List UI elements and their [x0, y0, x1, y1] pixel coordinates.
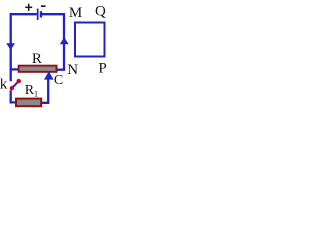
svg-text:1: 1 [34, 89, 38, 98]
resistor R1 body [15, 98, 42, 108]
wire: battery - terminal to top-right corner, down right side to resistor R right lead [42, 14, 64, 69]
svg-text:C: C [54, 73, 63, 88]
wire: R left lead to left vertical wire [10, 68, 19, 70]
battery short thick plate (-) [40, 11, 42, 17]
svg-text:R: R [32, 51, 42, 67]
svg-text:Q: Q [95, 3, 106, 19]
label + (battery positive) [25, 4, 32, 11]
wire: below switch down to bottom-left corner, to R1 left end [11, 90, 16, 102]
label R1 [25, 83, 38, 99]
svg-text:k: k [0, 76, 8, 92]
node label N [67, 62, 78, 78]
svg-text:M: M [69, 5, 82, 21]
switch k: blade (open) [13, 82, 18, 87]
conducting frame MQNP [75, 23, 105, 57]
svg-text:P: P [98, 61, 106, 77]
resistor R (rheostat body) [18, 65, 58, 73]
label k (switch) [0, 76, 8, 92]
node label P [98, 61, 106, 77]
label C [54, 73, 63, 88]
battery long plate (+) [37, 9, 39, 20]
switch k: fixed contact dot on wire [10, 86, 14, 90]
wire: left vertical + top-left corner + top wire to battery + [11, 14, 37, 81]
svg-text:N: N [67, 62, 78, 78]
current arrow (down) on left wire [6, 43, 15, 50]
slider wiper C arrow on R [42, 71, 54, 103]
node label Q [95, 3, 106, 19]
label R [32, 51, 42, 67]
background [0, 0, 114, 118]
switch k: open terminal dot [17, 79, 21, 83]
node label M [69, 5, 82, 21]
current arrow (up) on right wire [60, 37, 69, 44]
label - (battery negative) [41, 5, 46, 7]
